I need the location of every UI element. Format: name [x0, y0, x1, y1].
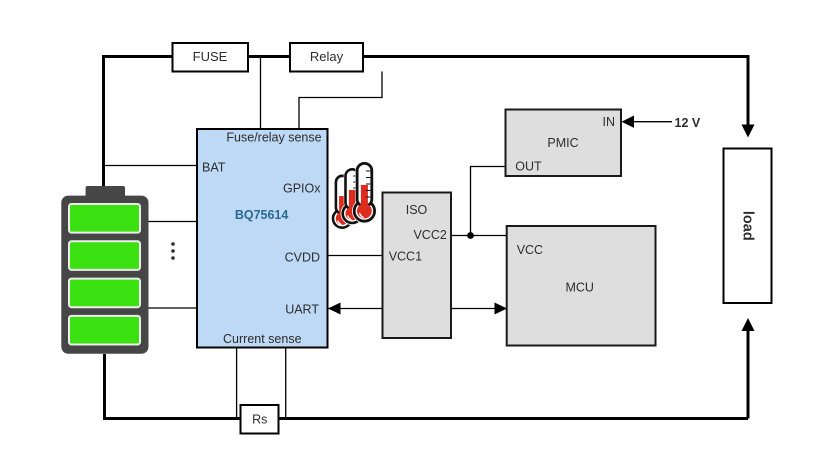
thermometer back	[331, 174, 353, 230]
wire PMIC OUT down to VCC2 node	[471, 167, 506, 236]
svg-text:Fuse/relay sense: Fuse/relay sense	[226, 130, 321, 144]
junction VCC2 node	[467, 232, 474, 239]
arrowhead into load top	[742, 125, 755, 138]
wire Relay to load (top right)	[363, 57, 748, 126]
wire CVDD to ISO VCC1	[328, 255, 384, 257]
svg-text:CVDD: CVDD	[285, 251, 320, 265]
svg-text:MCU: MCU	[565, 280, 593, 294]
relay K1 Relay box	[290, 43, 363, 72]
node cell taps ellipsis	[171, 242, 175, 260]
thermometer front	[352, 162, 377, 224]
IC U3 PMIC	[506, 110, 622, 177]
wire fuse sense	[260, 57, 262, 129]
svg-text:VCC2: VCC2	[413, 228, 446, 242]
wire ISO VCC2 to MCU VCC	[451, 235, 507, 237]
wire battery- bottom loop	[105, 354, 749, 419]
svg-text:GPIOx: GPIOx	[283, 181, 321, 195]
IC U2 ISO digital isolator	[383, 193, 452, 339]
svg-text:UART: UART	[285, 303, 319, 317]
wire ISO to MCU UART	[451, 308, 507, 310]
IC U1 BQ75614 battery monitor	[197, 129, 328, 348]
svg-text:BQ75614: BQ75614	[235, 208, 289, 222]
temperature sensors icon (three thermometers)	[331, 162, 377, 230]
svg-text:ISO: ISO	[406, 203, 428, 217]
svg-text:Current sense: Current sense	[223, 332, 302, 346]
thermometer middle	[341, 168, 364, 226]
wire battery+ top loop	[104, 57, 173, 187]
arrowhead UART into MCU	[495, 303, 508, 315]
svg-text:VCC: VCC	[517, 243, 543, 257]
svg-text:Relay: Relay	[310, 49, 344, 64]
svg-text:12 V: 12 V	[675, 116, 701, 130]
svg-text:IN: IN	[603, 115, 616, 129]
wire UART to ISO	[328, 308, 383, 310]
svg-text:FUSE: FUSE	[193, 49, 228, 64]
svg-text:OUT: OUT	[515, 160, 542, 174]
wire bottom right up to load	[747, 330, 750, 419]
wire BAT pin	[104, 165, 198, 167]
fuse F1 FUSE box	[173, 43, 249, 72]
svg-text:VCC1: VCC1	[389, 250, 422, 264]
wire current sense left (Rs kelvin)	[236, 348, 238, 418]
resistor Rs shunt	[241, 405, 279, 434]
battery pack BT1	[61, 186, 148, 354]
svg-text:BAT: BAT	[202, 160, 226, 174]
wire cell tap upper	[148, 221, 197, 223]
wire 12V supply into PMIC IN	[633, 121, 672, 123]
IC U4 MCU	[507, 226, 656, 346]
wire current sense right (Rs kelvin)	[285, 348, 287, 418]
load block	[724, 149, 772, 304]
arrowhead UART into BQ75614	[328, 303, 341, 315]
arrowhead 12V into PMIC	[622, 116, 635, 128]
wire relay sense	[299, 72, 382, 130]
svg-text:Rs: Rs	[252, 412, 267, 426]
svg-text:PMIC: PMIC	[547, 136, 578, 150]
wire cell tap lower	[148, 307, 197, 309]
svg-text:load: load	[740, 211, 756, 241]
wire FUSE to Relay	[248, 55, 290, 58]
arrowhead into load bottom	[742, 318, 755, 331]
